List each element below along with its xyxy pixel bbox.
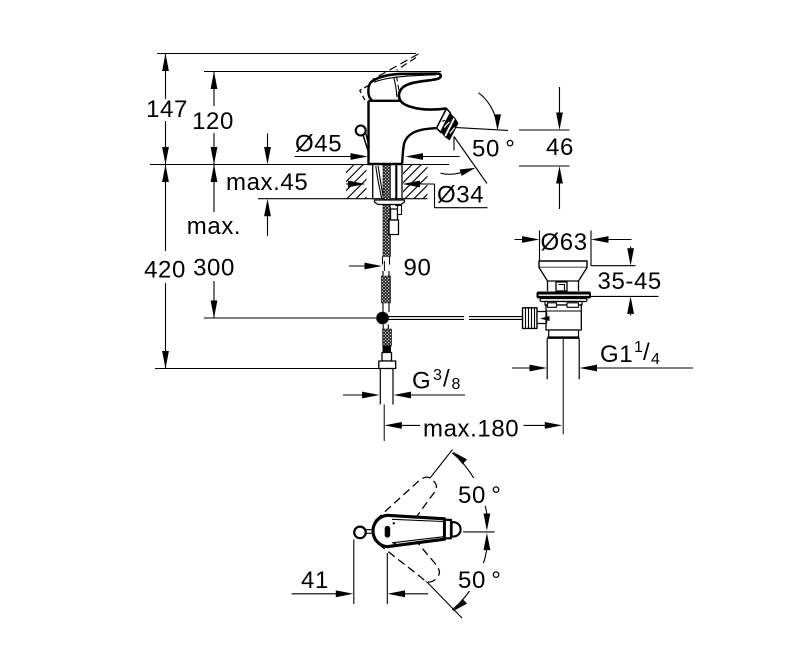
420 bottom ref line (155, 368, 379, 370)
dim line max45 vertical (264, 134, 271, 237)
handle lever front curve (394, 77, 397, 97)
faucet body left edge (367, 101, 369, 164)
braided hose middle (382, 276, 391, 303)
bottom view slant line lower (389, 543, 462, 618)
deck hatch left (320, 165, 399, 199)
drain clamp (540, 316, 550, 321)
bottom view arc upper (452, 452, 490, 531)
supply hose curve in shank (376, 166, 383, 199)
bottom view knob (354, 527, 366, 539)
hose fitting small (383, 346, 391, 353)
dashed raised handle rear (360, 86, 369, 101)
svg-text:max.180: max.180 (423, 416, 519, 443)
drain ext line right (590, 231, 592, 267)
drain ext line left (539, 231, 541, 263)
shank wall right (401, 165, 403, 200)
svg-text:50 °: 50 ° (472, 136, 516, 163)
drain neck (548, 281, 579, 291)
drain lower band thick bottom (547, 337, 579, 339)
dim Ø34 (346, 181, 488, 208)
label background lower (456, 563, 503, 591)
hose fitting mid (382, 353, 392, 362)
hose tube above ball (383, 303, 389, 312)
handle dashed inner arc (396, 77, 399, 99)
bottom view slant line upper (397, 450, 453, 521)
handle top edge (371, 74, 438, 83)
drain ring2 (545, 302, 582, 306)
handle tip and underside hook (399, 74, 446, 110)
deck bottom line max45 (258, 198, 428, 200)
svg-text:max.45: max.45 (226, 169, 308, 196)
handle inner top line (374, 75, 436, 83)
popup rod horizontal (389, 317, 523, 320)
bottom view ext line handle (386, 553, 388, 604)
svg-text:120: 120 (192, 108, 234, 135)
label background upper (456, 478, 503, 506)
hose tube lower break (383, 271, 389, 276)
dashed raised handle top (373, 54, 419, 80)
svg-text:4: 4 (651, 351, 660, 368)
popup knob (356, 126, 366, 136)
hose tube upper break (383, 257, 390, 265)
faucet center line lower (383, 405, 385, 442)
bottom view knob neck (366, 530, 372, 534)
drain collar (537, 312, 546, 324)
popup pull rod (395, 165, 397, 206)
dim line 147/420 vertical (162, 54, 169, 369)
bottom view dashed handle upper (366, 471, 446, 552)
drain flange ring (540, 299, 587, 302)
svg-text:90: 90 (404, 255, 432, 282)
spray angle arc lower (441, 168, 476, 176)
bottom view handle cap (452, 522, 461, 536)
bottom view center line (463, 531, 495, 533)
svg-text:1: 1 (634, 339, 643, 356)
spray angle line A (457, 128, 509, 131)
spray angle line B (454, 137, 487, 184)
ref line 120 top (204, 71, 441, 73)
bottom view handle inner top (392, 519, 443, 521)
drain pipe walls (547, 339, 579, 380)
drain cup taper (539, 268, 587, 282)
faucet body top edge (369, 100, 401, 102)
shank wall left (372, 165, 374, 200)
dim 90 (349, 263, 382, 270)
deck surface line (150, 164, 449, 166)
drain knob (523, 308, 538, 329)
drain lower band (549, 330, 579, 337)
svg-text:8: 8 (452, 376, 461, 393)
svg-text:41: 41 (301, 567, 329, 594)
svg-text:300: 300 (193, 255, 235, 282)
bottom view ext line knob (353, 540, 355, 605)
hose center tick (383, 261, 385, 271)
svg-text:35-45: 35-45 (598, 268, 662, 295)
dim max180 (384, 422, 562, 429)
dim line 120/max300 vertical (211, 72, 218, 319)
popup knob rod (363, 134, 369, 151)
svg-text:/: / (643, 339, 650, 366)
drain body slots (548, 303, 557, 308)
drain flange (537, 292, 592, 299)
svg-text:G: G (412, 368, 431, 395)
mounting washer (375, 200, 405, 205)
drain body line (546, 310, 581, 312)
svg-text:420: 420 (144, 257, 186, 284)
bottom view solid handle body (373, 515, 445, 546)
dim 35-45 lines (588, 247, 659, 316)
bottom view handle ring1 (445, 520, 451, 538)
faucet base bottom thick (368, 163, 403, 165)
drain body (546, 305, 581, 330)
max300 bottom ref / popup rod left (204, 317, 376, 319)
faucet spout right edge S-curve (402, 128, 436, 164)
svg-text:3: 3 (433, 367, 442, 384)
drain center line (562, 339, 564, 434)
svg-text:Ø34: Ø34 (437, 182, 484, 209)
svg-text:50 °: 50 ° (458, 482, 502, 509)
spray vertical tick (453, 137, 455, 151)
drain lift pin (556, 282, 567, 291)
drain plug cup (539, 261, 587, 268)
spray angle arc upper (479, 93, 502, 131)
bottom view handle dots (393, 522, 395, 524)
svg-text:/: / (443, 366, 450, 393)
rod sleeve (398, 206, 402, 215)
bottom view handle inner bottom (392, 537, 443, 543)
spray head (437, 108, 459, 141)
dim Ø45 (295, 153, 460, 160)
ref line 147 top (157, 53, 416, 55)
hose below ball (383, 325, 388, 330)
svg-text:50 °: 50 ° (458, 567, 502, 594)
rod coupler lower (389, 220, 399, 235)
deck hatch right (378, 165, 457, 199)
svg-text:G1: G1 (600, 341, 633, 368)
dim 46 vertical (519, 87, 570, 209)
bottom view arc lower (452, 533, 490, 612)
bottom view dashed handle lower (366, 510, 446, 591)
supply nut (379, 361, 396, 369)
svg-text:46: 46 (546, 134, 574, 161)
dim 41 (292, 590, 429, 597)
dim G114 (512, 365, 693, 372)
svg-text:Ø45: Ø45 (295, 131, 342, 158)
svg-text:147: 147 (146, 96, 188, 123)
handle left end (368, 83, 372, 101)
dashed raised handle bottom (397, 58, 417, 71)
bottom view handle slot (385, 526, 391, 538)
rod coupler upper (391, 209, 398, 220)
ball joint (376, 312, 389, 325)
braided hose upper (383, 165, 391, 257)
svg-text:Ø63: Ø63 (541, 229, 588, 256)
svg-text:max.: max. (187, 213, 241, 240)
dim G38 (343, 392, 465, 399)
supply pipe walls (380, 369, 393, 405)
dim O63 (515, 236, 632, 243)
